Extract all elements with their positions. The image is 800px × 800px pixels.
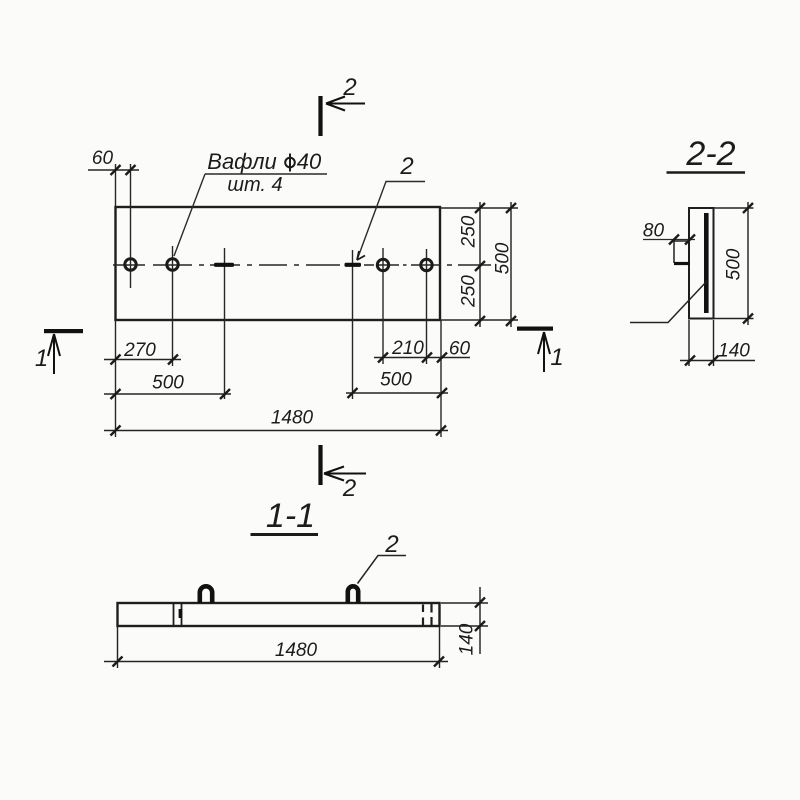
svg-text:60: 60 <box>92 148 114 169</box>
svg-text:270: 270 <box>123 340 156 361</box>
svg-text:2: 2 <box>342 475 356 502</box>
svg-text:60: 60 <box>449 339 471 360</box>
svg-text:1-1: 1-1 <box>266 497 315 535</box>
svg-text:1480: 1480 <box>271 408 314 429</box>
svg-text:2-2: 2-2 <box>685 135 735 173</box>
svg-text:1: 1 <box>35 345 48 372</box>
svg-text:250: 250 <box>459 275 480 308</box>
svg-text:2: 2 <box>384 531 398 558</box>
svg-text:2: 2 <box>399 153 413 180</box>
svg-text:1: 1 <box>550 344 563 371</box>
svg-text:Вафли: Вафли <box>207 149 276 174</box>
svg-text:500: 500 <box>493 242 514 274</box>
svg-text:40: 40 <box>297 149 322 174</box>
svg-text:500: 500 <box>380 370 412 391</box>
svg-text:80: 80 <box>643 221 665 242</box>
svg-text:шт. 4: шт. 4 <box>227 174 282 196</box>
svg-text:250: 250 <box>459 215 480 248</box>
svg-text:1480: 1480 <box>275 640 318 661</box>
svg-text:210: 210 <box>391 338 424 359</box>
svg-text:500: 500 <box>152 373 184 394</box>
svg-text:500: 500 <box>724 248 745 280</box>
svg-text:2: 2 <box>342 74 356 101</box>
svg-text:140: 140 <box>457 623 478 655</box>
svg-text:140: 140 <box>718 341 750 362</box>
